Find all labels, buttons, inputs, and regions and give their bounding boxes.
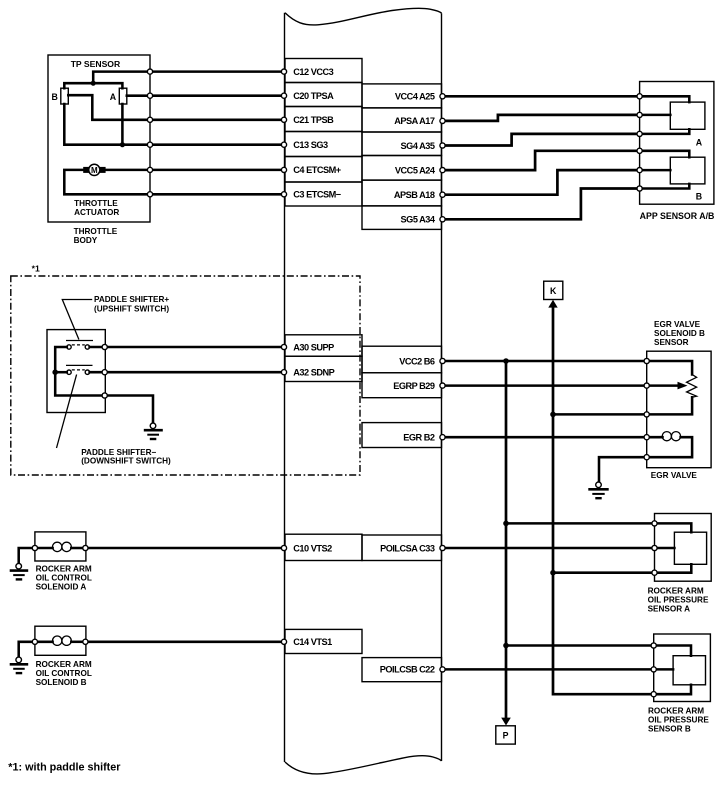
sensor element A (APP) (640, 96, 705, 147)
wire APSB net (442, 170, 640, 195)
svg-text:SENSOR B: SENSOR B (648, 724, 691, 733)
switch upshift (66, 341, 93, 350)
junction P bus VCC2 (503, 358, 509, 364)
svg-text:APP SENSOR A/B: APP SENSOR A/B (640, 211, 715, 221)
svg-text:C21 TPSB: C21 TPSB (293, 115, 334, 125)
terminal circles pressure sensor B (440, 643, 656, 697)
pin C12 VCC3 (285, 59, 362, 83)
pin POILCSB C22 (362, 658, 442, 682)
wire VCC2 net (442, 360, 647, 363)
paddle shifter switch box (47, 330, 105, 413)
terminal circles pressure sensor A (440, 521, 657, 576)
svg-text:THROTTLE: THROTTLE (74, 199, 118, 208)
wire SUPP net (90, 346, 285, 349)
svg-text:C13 SG3: C13 SG3 (293, 140, 328, 150)
resistor A (TP sensor element A) (110, 88, 127, 104)
svg-text:SG4 A35: SG4 A35 (401, 141, 435, 151)
svg-text:OIL PRESSURE: OIL PRESSURE (648, 715, 709, 724)
solenoid coil EGR valve (647, 432, 698, 481)
rocker arm oil control solenoid A (35, 532, 92, 591)
dashed option box *1 paddle shifter (11, 264, 360, 475)
pin APSB A18 (362, 180, 442, 206)
P node vertical bus (505, 361, 508, 718)
terminal circles solenoid A (32, 545, 286, 550)
wire POILCSB net (442, 668, 654, 671)
wire VTS2 net (88, 547, 286, 550)
svg-text:PADDLE SHIFTER+: PADDLE SHIFTER+ (94, 295, 169, 304)
rocker arm oil pressure sensor B (648, 634, 710, 733)
svg-text:(UPSHIFT SWITCH): (UPSHIFT SWITCH) (94, 304, 169, 313)
terminal circles ECM left C-connector (281, 69, 286, 197)
svg-text:SOLENOID A: SOLENOID A (36, 582, 87, 591)
wire ETCSM+ net (106, 169, 285, 172)
connector P box (496, 718, 516, 745)
svg-text:*1: with paddle shifter: *1: with paddle shifter (8, 762, 121, 774)
terminal circles switch box edge (102, 344, 107, 398)
svg-text:C12 VCC3: C12 VCC3 (293, 67, 333, 77)
svg-text:C10 VTS2: C10 VTS2 (293, 543, 332, 553)
wire SG4 net (442, 134, 640, 146)
junction P bus pressure sensor B supply (503, 643, 509, 649)
svg-text:EGR VALVE: EGR VALVE (654, 320, 701, 329)
junction switch common (52, 369, 58, 375)
pin C3 ETCSM- (285, 182, 362, 206)
label PADDLE SHIFTER- (DOWNSHIFT SWITCH) (57, 375, 172, 466)
junction K bus EGR sensor low (550, 412, 556, 418)
ground solenoid B (10, 657, 29, 673)
svg-text:SENSOR A: SENSOR A (648, 605, 691, 614)
svg-text:C20 TPSA: C20 TPSA (293, 91, 334, 101)
junction K bus pressure sensor A low (550, 570, 556, 576)
svg-text:A32 SDNP: A32 SDNP (293, 368, 334, 378)
svg-text:ROCKER ARM: ROCKER ARM (36, 660, 92, 669)
wire TPSB net (68, 95, 285, 120)
svg-text:THROTTLE: THROTTLE (74, 227, 118, 236)
wire switch common (55, 347, 102, 396)
wire pressure sensor A low (553, 571, 655, 574)
wire ETCSM- net (64, 170, 285, 194)
label THROTTLE BODY (74, 227, 118, 245)
svg-text:C14 VTS1: C14 VTS1 (293, 637, 332, 647)
rocker arm oil control solenoid B (35, 626, 92, 687)
svg-text:ROCKER ARM: ROCKER ARM (36, 564, 92, 573)
label THROTTLE ACTUATOR (74, 199, 119, 217)
pin A30 SUPP (285, 335, 362, 356)
svg-text:OIL CONTROL: OIL CONTROL (36, 669, 92, 678)
svg-text:SENSOR: SENSOR (654, 338, 689, 347)
terminal circles ECM A30 A32 (281, 344, 286, 374)
pin VCC2 B6 (362, 346, 442, 373)
pin C20 TPSA (285, 83, 362, 107)
svg-text:*1: *1 (32, 264, 40, 274)
pin C10 VTS2 (285, 534, 362, 560)
svg-text:EGRP B29: EGRP B29 (393, 381, 435, 391)
wire SDNP net (90, 371, 285, 374)
svg-text:ACTUATOR: ACTUATOR (74, 208, 119, 217)
terminal circles throttle body edge (147, 69, 152, 197)
wire VCC3 net (TP sensor supply) (64, 72, 285, 89)
sensor element B (APP) (640, 151, 705, 202)
pin C4 ETCSM+ (285, 157, 362, 183)
pin SG4 A35 (362, 132, 442, 156)
svg-text:APSB A18: APSB A18 (394, 190, 435, 200)
rocker arm oil pressure sensor A (648, 514, 712, 614)
pin APSA A17 (362, 108, 442, 132)
svg-text:APSA A17: APSA A17 (394, 116, 435, 126)
wire VCC5 net (442, 151, 640, 170)
wire SG3 net (64, 104, 285, 145)
terminal circles solenoid B (32, 639, 286, 644)
svg-text:VCC4 A25: VCC4 A25 (395, 92, 435, 102)
wire EGR net (442, 436, 662, 439)
pin EGR B2 (362, 423, 442, 448)
pin VCC4 A25 (362, 84, 442, 108)
wire pressure sensor B supply (506, 644, 654, 647)
svg-text:PADDLE SHIFTER−: PADDLE SHIFTER− (81, 448, 156, 457)
K node vertical bus (553, 307, 654, 694)
ground solenoid A (10, 563, 29, 579)
wire EGRP net (442, 384, 680, 387)
APP sensor A/B box (640, 82, 715, 222)
svg-text:ROCKER ARM: ROCKER ARM (648, 587, 704, 596)
svg-text:B: B (696, 192, 702, 202)
EGR valve solenoid B sensor box (647, 320, 711, 468)
resistor B (TP sensor element B) (52, 88, 69, 104)
ground paddle shifter (144, 423, 163, 439)
pin POILCSA C33 (362, 535, 442, 561)
wire pressure sensor A supply (506, 522, 655, 525)
svg-text:POILCSA C33: POILCSA C33 (380, 543, 435, 553)
junction TP supply (91, 81, 96, 86)
wire EGR valve ground net (599, 457, 647, 482)
svg-text:C4 ETCSM+: C4 ETCSM+ (293, 165, 340, 175)
label PADDLE SHIFTER+ (UPSHIFT SWITCH) (62, 295, 169, 340)
svg-text:K: K (550, 286, 557, 296)
svg-text:P: P (503, 731, 509, 741)
terminal circles APP sensor (637, 94, 642, 191)
svg-text:A30 SUPP: A30 SUPP (293, 342, 334, 352)
svg-text:EGR B2: EGR B2 (403, 433, 435, 443)
ECM connector body outline (285, 8, 442, 774)
pin A32 SDNP (285, 356, 362, 381)
ground EGR valve (588, 482, 608, 498)
wire paddle ground net (107, 396, 153, 423)
svg-text:ROCKER ARM: ROCKER ARM (648, 706, 704, 715)
wire EGR sensor low to K bus (553, 413, 647, 416)
wire SG5 net (442, 189, 640, 220)
wire POILCSA net (442, 547, 655, 550)
svg-text:SOLENOID B: SOLENOID B (654, 329, 705, 338)
pin VCC5 A24 (362, 156, 442, 181)
wire APSA net (442, 115, 640, 121)
svg-text:B: B (52, 92, 58, 102)
pin C21 TPSB (285, 107, 362, 132)
svg-text:SOLENOID B: SOLENOID B (36, 678, 87, 687)
pin C14 VTS1 (285, 629, 362, 653)
svg-text:OIL PRESSURE: OIL PRESSURE (648, 596, 709, 605)
motor M throttle actuator (83, 164, 105, 175)
svg-text:(DOWNSHIFT SWITCH): (DOWNSHIFT SWITCH) (81, 457, 171, 466)
pin C13 SG3 (285, 132, 362, 157)
wire VCC4 net (442, 95, 640, 98)
svg-text:A: A (110, 92, 117, 102)
svg-text:SG5 A34: SG5 A34 (401, 215, 436, 225)
svg-text:VCC2 B6: VCC2 B6 (399, 356, 435, 366)
potentiometer EGR position sensor (647, 361, 697, 414)
terminal circles ECM right B-connector (440, 358, 445, 439)
svg-text:BODY: BODY (74, 236, 98, 245)
svg-text:A: A (696, 137, 703, 147)
terminal circles ECM right A-connector (440, 94, 445, 222)
junction P bus pressure sensor A supply (503, 521, 509, 527)
terminal circles EGR sensor (644, 358, 649, 459)
svg-text:EGR VALVE: EGR VALVE (651, 471, 698, 480)
svg-text:OIL CONTROL: OIL CONTROL (36, 573, 92, 582)
svg-text:C3 ETCSM−: C3 ETCSM− (293, 190, 340, 200)
potentiometer wiper arrowhead EGRP (678, 382, 688, 390)
pin EGRP B29 (362, 373, 442, 398)
junction SG3 (120, 142, 125, 147)
pin SG5 A34 (362, 206, 442, 230)
wire solenoid B ground (19, 642, 33, 657)
svg-text:TP SENSOR: TP SENSOR (71, 59, 121, 69)
svg-text:VCC5 A24: VCC5 A24 (395, 165, 436, 175)
svg-text:POILCSB C22: POILCSB C22 (380, 665, 435, 675)
connector K box (544, 281, 563, 307)
switch downshift (66, 365, 93, 374)
wire VTS1 net (88, 641, 286, 644)
wire solenoid A ground (19, 548, 33, 564)
wire TPSA net (127, 94, 285, 97)
throttle body box (48, 55, 150, 222)
svg-text:M: M (91, 166, 98, 175)
